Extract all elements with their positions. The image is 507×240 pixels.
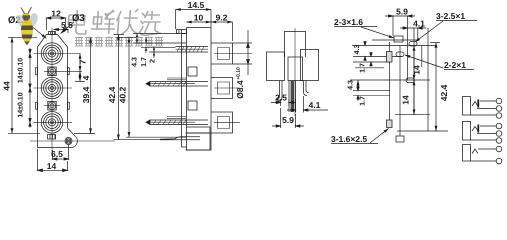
column lines xyxy=(389,42,391,120)
watermark small text 直荣电子连接器商城 xyxy=(75,37,163,47)
dim 2.5 xyxy=(281,99,289,106)
dim text 14.5 xyxy=(188,2,204,8)
leader dia3 xyxy=(61,22,75,34)
dim 4 xyxy=(79,71,81,81)
dim text 2 xyxy=(150,59,155,62)
电 xyxy=(68,10,88,34)
dim text 14 a xyxy=(414,65,420,74)
rivet edge ears xyxy=(36,68,70,109)
barrel 2 xyxy=(211,78,233,99)
pad P2 xyxy=(409,42,417,47)
蜂 xyxy=(91,10,117,34)
dim text 12 xyxy=(52,11,61,17)
view1 dim texts xyxy=(4,11,126,169)
dim 5.5 xyxy=(54,29,68,31)
leader 2-3x1.6 xyxy=(361,27,394,38)
dim text 10 xyxy=(194,15,203,21)
dim 42.4 right xyxy=(435,43,437,132)
label dia2.6 xyxy=(8,16,28,23)
dim 9.2 xyxy=(211,21,233,23)
jack1 rings xyxy=(41,43,63,65)
center cap xyxy=(285,32,306,58)
foot step xyxy=(187,127,210,133)
symbol 2 xyxy=(463,122,502,144)
right pin xyxy=(304,81,309,96)
dim text 5.5 xyxy=(61,22,72,28)
pad P5 xyxy=(406,78,415,83)
dim 10 xyxy=(187,21,212,23)
dim text 4.1 top xyxy=(413,21,424,27)
centerline bottom hole xyxy=(30,140,115,142)
dim text 2.5 xyxy=(275,95,286,101)
pad P1 xyxy=(394,36,403,42)
dim text 9.2 xyxy=(216,15,227,21)
centerline rivet2 xyxy=(44,105,60,107)
label 2-2x1 xyxy=(444,62,465,68)
bottom stake tab xyxy=(48,135,56,140)
dim text dia8.4 xyxy=(236,67,243,98)
right block xyxy=(301,50,319,81)
top stake tab xyxy=(49,32,56,35)
label 3-1.6x2.5 xyxy=(331,136,367,142)
pad P4 xyxy=(396,52,404,57)
barrel 3 xyxy=(211,112,233,133)
leader 3-2.5x1 xyxy=(415,21,443,42)
dim 6.5 xyxy=(53,145,69,160)
barrel 1 xyxy=(211,43,233,64)
rivet 2 xyxy=(48,101,56,110)
优 xyxy=(116,9,139,34)
dim text 14 bottom xyxy=(47,163,56,169)
dim text 44 xyxy=(4,81,10,90)
pin jack3 xyxy=(150,120,208,125)
label 3-2.5x1 xyxy=(436,13,465,19)
top tab edge xyxy=(177,30,187,34)
dim text 42.4 xyxy=(109,87,115,103)
dim text 39.4 xyxy=(83,87,89,103)
housing notch 1 xyxy=(188,67,197,76)
leader 2-2x1 xyxy=(405,55,443,68)
dim 12 xyxy=(47,17,66,19)
small dims 4.3 1.7 2 ext lines xyxy=(133,34,186,53)
symbol 3 xyxy=(463,145,502,164)
foot block xyxy=(186,133,211,150)
dim 1.7 b xyxy=(357,85,359,101)
dim text 4.3 a xyxy=(354,45,359,54)
dim 39.4 xyxy=(90,38,92,134)
view3 centerline xyxy=(294,28,296,116)
watermark big text 电蜂优选 xyxy=(68,9,163,35)
pin jack1 xyxy=(176,47,209,53)
dim 5.9 xyxy=(281,108,296,128)
left pin xyxy=(277,81,283,102)
dim 14.5 xyxy=(176,9,212,11)
dim 42.4 (view2 left) xyxy=(117,35,119,140)
dim text 7 xyxy=(80,60,86,64)
plate outline xyxy=(38,35,78,148)
dim 4.1 xyxy=(296,96,304,113)
dim text 14+-0.10 b xyxy=(18,93,23,118)
dim text 42.4 r xyxy=(441,85,447,101)
dim text 1.7 a xyxy=(360,63,365,72)
dim 7 xyxy=(79,54,81,72)
jack3 rings xyxy=(41,112,63,134)
dim 14 bottom xyxy=(38,149,68,171)
dim 14 b xyxy=(413,80,415,115)
dim text 1.7 b xyxy=(360,96,365,105)
dim 40.2 xyxy=(128,37,130,137)
pad P7 xyxy=(396,136,404,142)
dia 8.4 ext xyxy=(233,43,253,64)
选 xyxy=(139,11,163,35)
jack2 rings xyxy=(41,77,63,99)
dim text 5.9 xyxy=(282,117,293,123)
leader 3-1.6x2.5 xyxy=(370,129,389,144)
dim text 40.2 xyxy=(120,87,126,103)
center lower xyxy=(288,57,303,81)
pin jack2 xyxy=(150,82,208,87)
row lines xyxy=(372,39,418,41)
dim text 4.3 b xyxy=(348,80,353,89)
bee logo xyxy=(15,7,40,45)
label dia3 xyxy=(72,14,84,21)
dim 4.3 b xyxy=(357,80,359,91)
center pin xyxy=(289,81,296,113)
dim text 5.9 top xyxy=(396,9,407,15)
housing body xyxy=(187,28,212,151)
dim 14±0.10 pair xyxy=(29,48,31,128)
dim text 14 b xyxy=(403,95,409,104)
dim 14 a xyxy=(413,46,415,81)
plate edge xyxy=(182,28,187,151)
centerline vertical view1 xyxy=(51,28,53,154)
housing notch 2 xyxy=(188,101,197,110)
centerline jack1 xyxy=(34,53,81,55)
solder lug xyxy=(160,137,200,140)
centerline rivet1 xyxy=(44,70,82,72)
pad P3 xyxy=(387,52,393,63)
dim 1.7 a xyxy=(370,52,372,67)
dim text 4 xyxy=(83,76,89,81)
left block xyxy=(267,52,285,81)
centerline jack3 xyxy=(34,121,73,123)
rivet 1 xyxy=(48,67,56,76)
dim 44 xyxy=(11,37,13,133)
dim 4.3 a xyxy=(364,41,366,61)
dim 4.1 top xyxy=(400,27,426,29)
bottom mount hole xyxy=(65,138,72,145)
dim 5.9 top xyxy=(385,15,415,17)
pad P6 xyxy=(387,120,393,128)
dia 8.4 dim line xyxy=(247,30,249,75)
centerline jack2 xyxy=(34,87,73,89)
dim text 14+-0.10 a xyxy=(18,58,23,83)
barrel centerlines xyxy=(214,54,252,123)
dim text 4.1 xyxy=(309,102,320,108)
label 2-3x1.6 xyxy=(334,19,362,25)
dim text 1.7 xyxy=(141,57,146,66)
dim text 6.5 xyxy=(51,151,62,157)
dim text 4.3 xyxy=(132,57,137,66)
leader dia2.6 xyxy=(30,25,47,39)
symbol 1 xyxy=(463,97,502,119)
